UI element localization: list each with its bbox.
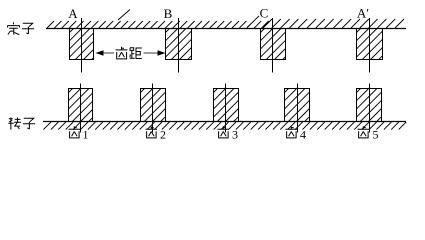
svg-text:B: B: [164, 6, 173, 21]
rotor surface line: [43, 121, 406, 123]
label 定子 (stator): [8, 22, 35, 34]
label 齿4: [286, 126, 307, 141]
rotor hatching: [44, 122, 407, 130]
svg-text:1: 1: [83, 128, 89, 142]
stator tooth B: [166, 29, 192, 60]
label 齿2: [146, 126, 167, 141]
rotor tooth 5: [357, 89, 382, 122]
label 齿3: [218, 126, 239, 141]
center line of stator tooth C: [272, 18, 274, 73]
svg-text:A′: A′: [357, 6, 369, 21]
svg-text:2: 2: [160, 128, 166, 142]
rotor tooth 4: [285, 89, 310, 122]
label 齿1: [69, 126, 89, 141]
stator tooth A': [357, 29, 383, 60]
stator surface line: [46, 28, 406, 30]
label 转子 (rotor): [8, 118, 35, 130]
center line of rotor tooth 1: [80, 84, 82, 133]
center line of rotor tooth 5: [369, 84, 371, 133]
label 齿距 (tooth pitch): [116, 47, 142, 59]
center line of stator tooth B: [178, 18, 180, 73]
center line of stator tooth A': [369, 18, 371, 73]
center line of rotor tooth 4: [297, 84, 299, 133]
center line of stator tooth A: [81, 18, 83, 73]
stator tooth C: [261, 29, 286, 60]
rotor tooth 1: [69, 89, 93, 122]
stator hatching: [47, 10, 404, 29]
tooth pitch double arrow: [96, 50, 166, 56]
svg-text:A: A: [68, 6, 78, 21]
center line of rotor tooth 2: [152, 84, 154, 133]
svg-text:C: C: [260, 6, 269, 21]
svg-text:5: 5: [373, 128, 379, 142]
svg-text:3: 3: [232, 128, 238, 142]
label 齿5: [358, 126, 379, 141]
center line of rotor tooth 3: [225, 84, 227, 133]
rotor tooth 2: [141, 89, 166, 122]
svg-text:4: 4: [300, 128, 306, 142]
rotor tooth 3: [214, 89, 239, 122]
stator tooth A: [70, 29, 94, 60]
